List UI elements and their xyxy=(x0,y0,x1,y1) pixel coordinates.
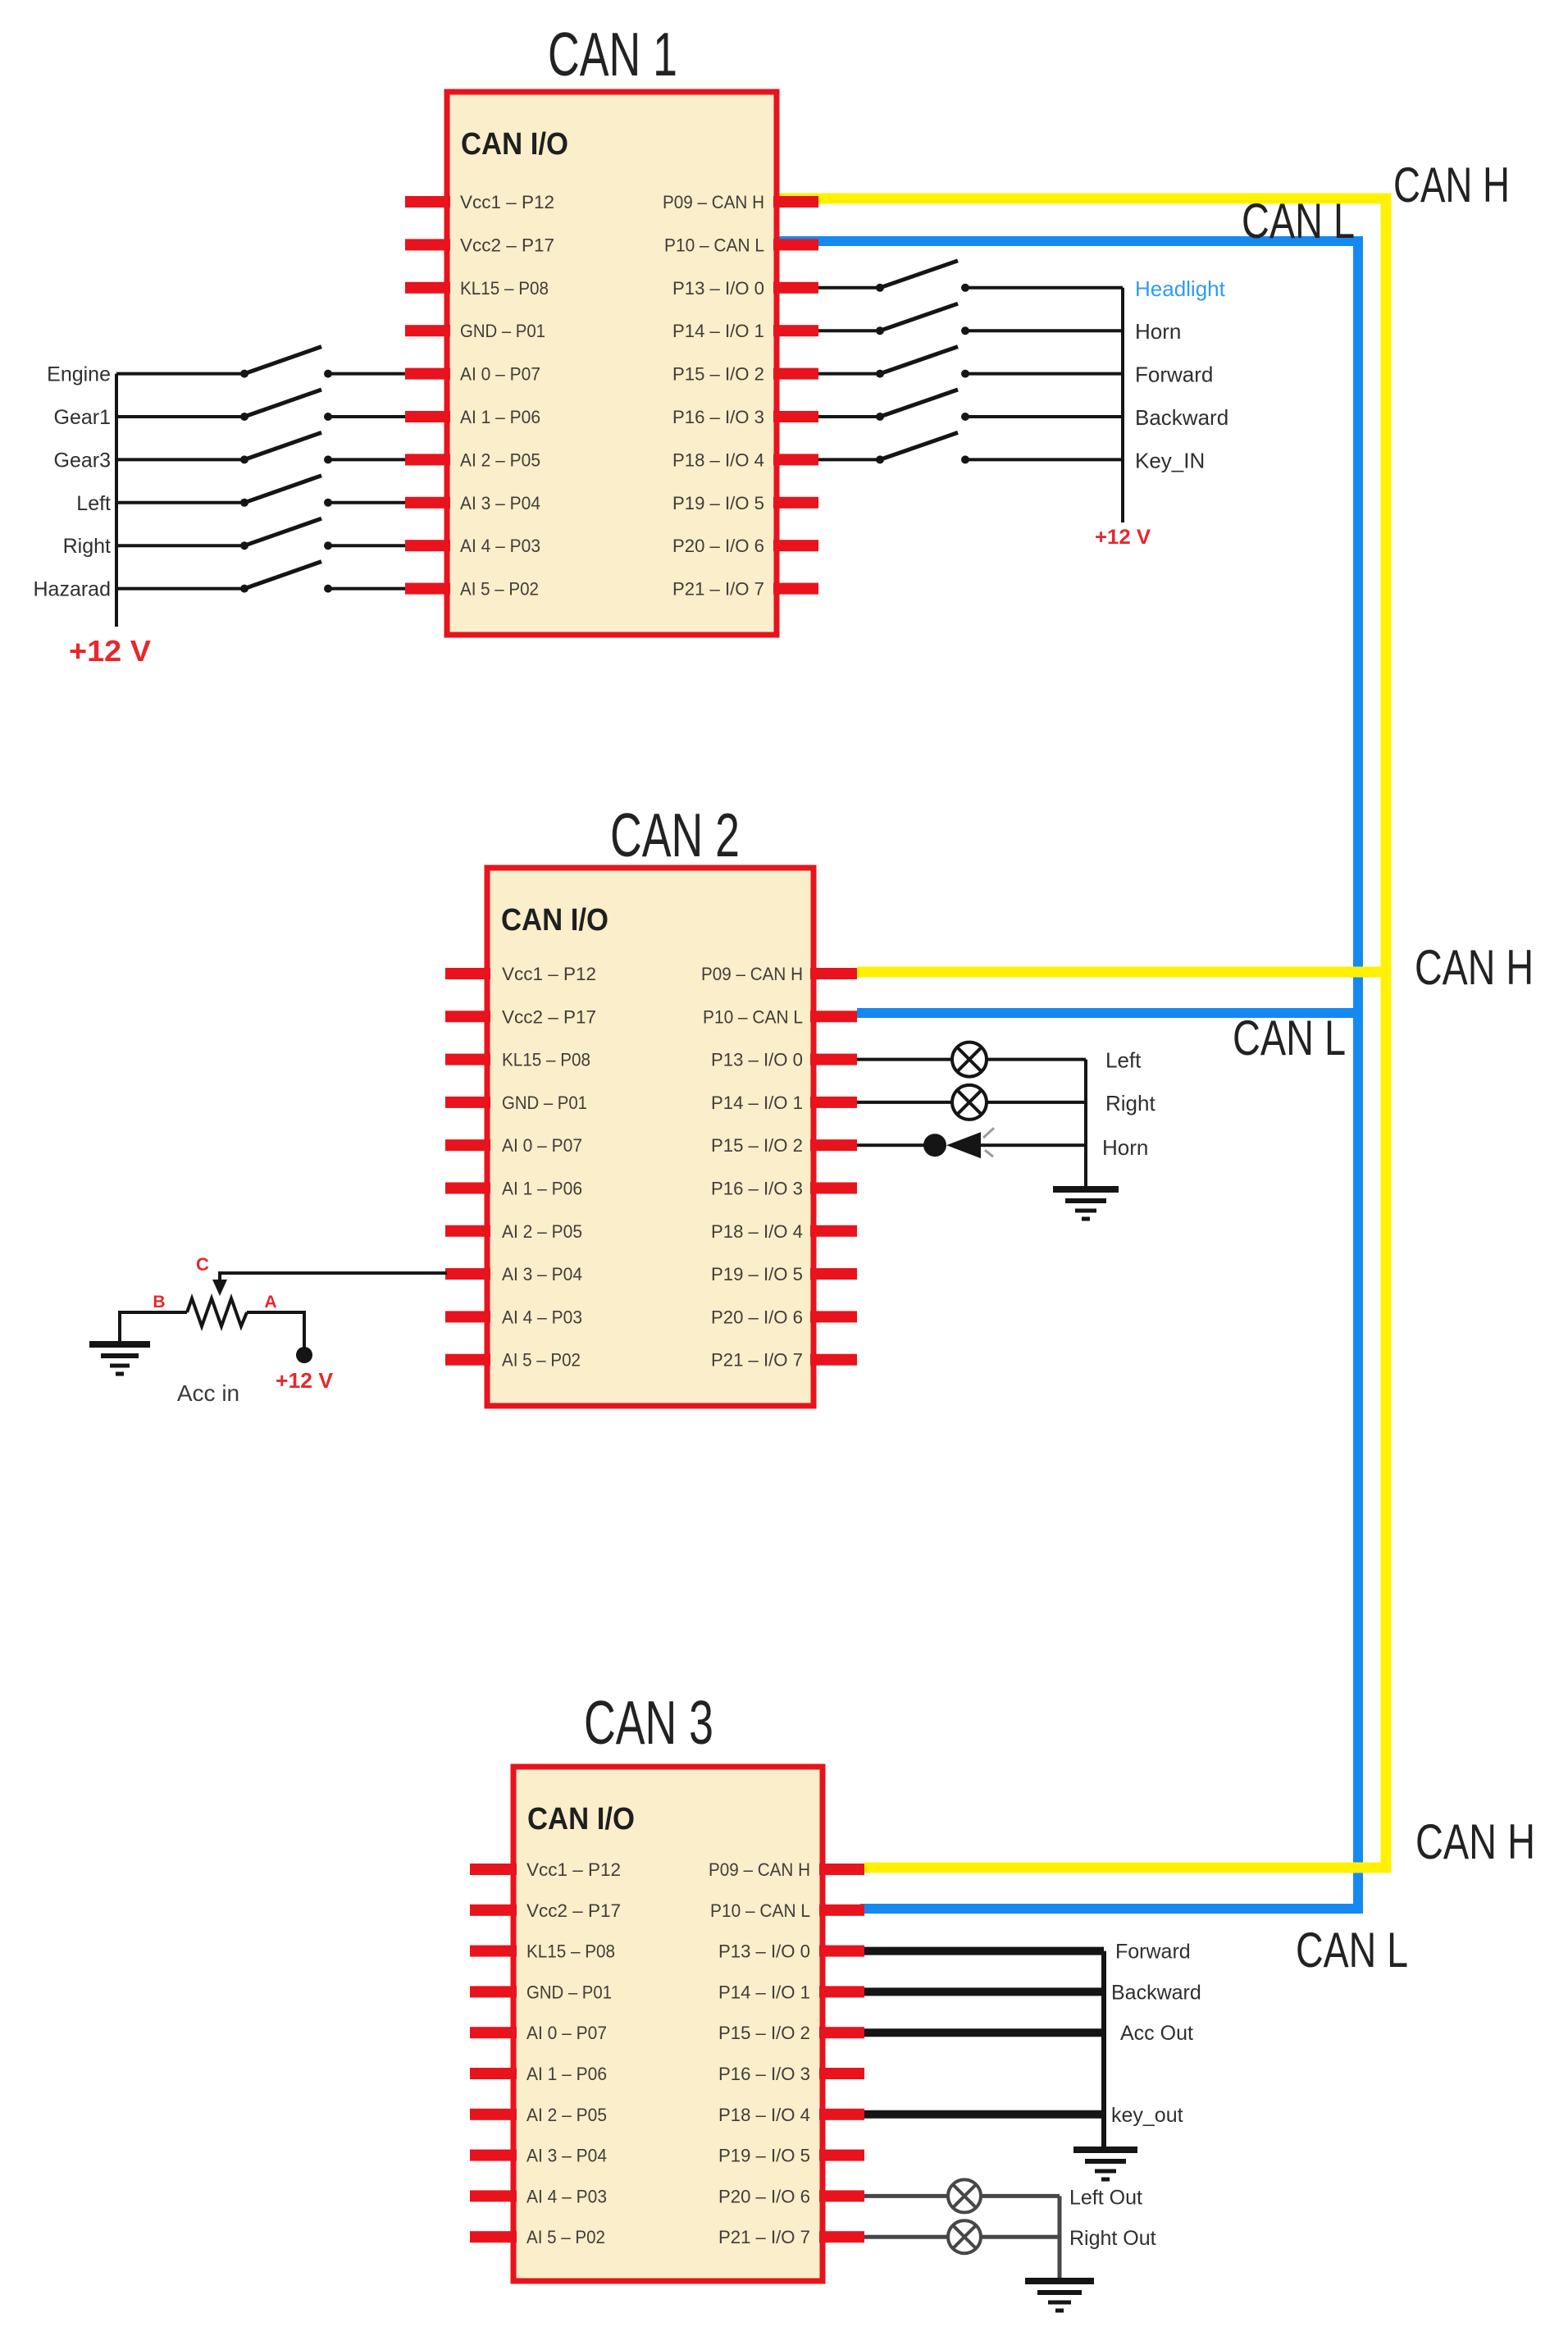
node +12V terminal dot xyxy=(296,1347,312,1363)
svg-text:GND – P01: GND – P01 xyxy=(526,1982,612,2002)
svg-text:AI 0 – P07: AI 0 – P07 xyxy=(526,2023,607,2043)
pin P19 – I/O 5 of CAN 1 (right stub + label) xyxy=(672,493,818,513)
svg-text:Hazarad: Hazarad xyxy=(34,578,112,601)
svg-text:AI 4 – P03: AI 4 – P03 xyxy=(526,2186,607,2206)
pin AI 5 – P02 of CAN 1 (left stub + label) xyxy=(405,579,539,600)
svg-text:Vcc2 – P17: Vcc2 – P17 xyxy=(460,235,554,255)
svg-text:Acc in: Acc in xyxy=(177,1380,239,1406)
svg-text:P13 – I/O 0: P13 – I/O 0 xyxy=(718,1941,810,1962)
svg-text:CAN 2: CAN 2 xyxy=(610,801,740,869)
node +12V rail vertical wire (left of CAN1) xyxy=(115,374,118,627)
pin KL15 – P08 of CAN 3 (left stub + label) xyxy=(470,1941,615,1962)
svg-text:P18 – I/O 4: P18 – I/O 4 xyxy=(711,1221,803,1242)
IC CAN 1 CAN I/O body xyxy=(447,92,777,635)
svg-text:P21 – I/O 7: P21 – I/O 7 xyxy=(718,2227,810,2247)
svg-text:P16 – I/O 3: P16 – I/O 3 xyxy=(718,2064,810,2084)
svg-text:AI 2 – P05: AI 2 – P05 xyxy=(460,449,540,470)
svg-text:P10 – CAN L: P10 – CAN L xyxy=(710,1900,810,1921)
switch "Horn" on I/O 1 of CAN1 xyxy=(818,303,1123,335)
svg-text:Forward: Forward xyxy=(1115,1941,1191,1964)
pin Vcc1 – P12 of CAN 1 (left stub + label) xyxy=(405,192,554,212)
pin P18 – I/O 4 of CAN 3 (right stub + label) xyxy=(718,2105,864,2125)
svg-text:Gear3: Gear3 xyxy=(54,449,111,472)
pin P09 – CAN H of CAN 3 (right stub + label) xyxy=(709,1859,864,1880)
pin AI 1 – P06 of CAN 1 (left stub + label) xyxy=(405,407,540,427)
pin P13 – I/O 0 of CAN 1 (right stub + label) xyxy=(672,278,818,299)
pin AI 2 – P05 of CAN 3 (left stub + label) xyxy=(470,2105,607,2125)
svg-text:AI 1 – P06: AI 1 – P06 xyxy=(460,407,540,427)
pin P10 – CAN L of CAN 3 (right stub + label) xyxy=(710,1900,864,1921)
lamp L1 "Left" on I/O 0 of CAN2 xyxy=(857,1042,1086,1077)
svg-text:CAN I/O: CAN I/O xyxy=(501,903,609,938)
pin AI 1 – P06 of CAN 3 (left stub + label) xyxy=(470,2064,607,2084)
svg-text:Backward: Backward xyxy=(1135,405,1228,430)
pin P20 – I/O 6 of CAN 3 (right stub + label) xyxy=(718,2186,864,2206)
pin Vcc1 – P12 of CAN 3 (left stub + label) xyxy=(470,1859,621,1880)
wire CAN L bus (blue): CAN1 P10 right, down, left into CAN3 P10; branch to CAN2 P10 xyxy=(777,241,1358,1909)
svg-text:KL15 – P08: KL15 – P08 xyxy=(526,1941,615,1962)
svg-text:Horn: Horn xyxy=(1102,1135,1148,1160)
svg-text:AI 3 – P04: AI 3 – P04 xyxy=(526,2146,607,2166)
svg-text:Engine: Engine xyxy=(47,363,111,386)
svg-text:P09 – CAN H: P09 – CAN H xyxy=(663,192,764,212)
pin P16 – I/O 3 of CAN 2 (right stub + label) xyxy=(711,1179,857,1199)
switch "Key_IN" on I/O 4 of CAN1 xyxy=(818,432,1123,463)
horn LS1 on I/O 2 of CAN2 xyxy=(857,1128,1086,1158)
IC CAN 2 CAN I/O body xyxy=(487,868,814,1406)
wire terminal B to ground xyxy=(120,1312,187,1342)
svg-text:Right: Right xyxy=(1105,1091,1155,1115)
svg-text:P18 – I/O 4: P18 – I/O 4 xyxy=(672,449,764,470)
wire lamp common down to ground (CAN3) xyxy=(1058,2196,1062,2279)
svg-text:KL15 – P08: KL15 – P08 xyxy=(460,278,549,299)
lamp L2 "Right" on I/O 1 of CAN2 xyxy=(857,1085,1086,1120)
pin P21 – I/O 7 of CAN 2 (right stub + label) xyxy=(711,1350,857,1371)
switch S1 "Engine" input to AI 0 of CAN1 xyxy=(116,347,405,378)
pin P15 – I/O 2 of CAN 1 (right stub + label) xyxy=(672,364,818,385)
svg-text:Left: Left xyxy=(76,492,111,515)
svg-text:AI 5 – P02: AI 5 – P02 xyxy=(526,2227,605,2247)
pin P18 – I/O 4 of CAN 2 (right stub + label) xyxy=(711,1221,857,1242)
svg-text:P19 – I/O 5: P19 – I/O 5 xyxy=(718,2146,810,2166)
pin P19 – I/O 5 of CAN 2 (right stub + label) xyxy=(711,1264,857,1284)
svg-text:P10 – CAN L: P10 – CAN L xyxy=(703,1006,803,1027)
pin P14 – I/O 1 of CAN 1 (right stub + label) xyxy=(672,321,818,341)
lamp "Left Out" on I/O 6 of CAN3 xyxy=(864,2179,1060,2212)
pin AI 2 – P05 of CAN 2 (left stub + label) xyxy=(445,1221,582,1242)
wire CAN3 outputs common down to ground xyxy=(1101,1951,1106,2147)
ground symbol (CAN2 outputs) xyxy=(1053,1189,1119,1219)
pin P10 – CAN L of CAN 2 (right stub + label) xyxy=(703,1006,857,1027)
svg-text:P21 – I/O 7: P21 – I/O 7 xyxy=(711,1350,803,1371)
pin Vcc2 – P17 of CAN 3 (left stub + label) xyxy=(470,1900,621,1921)
svg-text:AI 4 – P03: AI 4 – P03 xyxy=(460,536,540,556)
svg-text:AI 3 – P04: AI 3 – P04 xyxy=(502,1264,582,1284)
svg-text:CAN L: CAN L xyxy=(1296,1923,1408,1978)
switch S5 "Right" input to AI 4 of CAN1 xyxy=(116,518,405,550)
pin P14 – I/O 1 of CAN 2 (right stub + label) xyxy=(711,1093,857,1113)
pin P09 – CAN H of CAN 1 (right stub + label) xyxy=(663,192,818,212)
svg-text:B: B xyxy=(153,1293,165,1312)
pin P13 – I/O 0 of CAN 2 (right stub + label) xyxy=(711,1050,857,1070)
pin P10 – CAN L of CAN 1 (right stub + label) xyxy=(664,235,818,255)
pin AI 4 – P03 of CAN 3 (left stub + label) xyxy=(470,2186,607,2206)
pin P15 – I/O 2 of CAN 3 (right stub + label) xyxy=(718,2023,864,2043)
switch S4 "Left" input to AI 3 of CAN1 xyxy=(116,476,405,507)
svg-text:CAN H: CAN H xyxy=(1393,157,1510,212)
pin P09 – CAN H of CAN 2 (right stub + label) xyxy=(701,964,857,984)
svg-text:P19 – I/O 5: P19 – I/O 5 xyxy=(672,493,764,513)
switch S6 "Hazarad" input to AI 5 of CAN1 xyxy=(116,562,405,593)
svg-text:P13 – I/O 0: P13 – I/O 0 xyxy=(672,278,764,299)
svg-text:GND – P01: GND – P01 xyxy=(502,1093,587,1113)
svg-text:key_out: key_out xyxy=(1111,2104,1183,2127)
svg-text:AI 1 – P06: AI 1 – P06 xyxy=(502,1179,582,1199)
svg-text:Forward: Forward xyxy=(1135,363,1213,387)
pin P20 – I/O 6 of CAN 1 (right stub + label) xyxy=(672,536,818,556)
pin P13 – I/O 0 of CAN 3 (right stub + label) xyxy=(718,1941,864,1962)
pin P16 – I/O 3 of CAN 3 (right stub + label) xyxy=(718,2064,864,2084)
IC CAN 3 CAN I/O body xyxy=(513,1767,823,2281)
svg-text:P14 – I/O 1: P14 – I/O 1 xyxy=(672,321,764,341)
svg-text:Left: Left xyxy=(1105,1048,1142,1073)
svg-text:KL15 – P08: KL15 – P08 xyxy=(502,1050,590,1070)
pin AI 3 – P04 of CAN 3 (left stub + label) xyxy=(470,2146,607,2166)
svg-text:P15 – I/O 2: P15 – I/O 2 xyxy=(718,2023,810,2043)
svg-text:CAN 1: CAN 1 xyxy=(548,20,677,89)
switch "Backward" on I/O 3 of CAN1 xyxy=(818,390,1123,421)
svg-text:P14 – I/O 1: P14 – I/O 1 xyxy=(718,1982,810,2002)
svg-text:Vcc2 – P17: Vcc2 – P17 xyxy=(526,1900,621,1921)
svg-text:AI 3 – P04: AI 3 – P04 xyxy=(460,493,540,513)
switch "Forward" on I/O 2 of CAN1 xyxy=(818,347,1123,378)
svg-text:Vcc2 – P17: Vcc2 – P17 xyxy=(502,1006,596,1027)
svg-text:P20 – I/O 6: P20 – I/O 6 xyxy=(672,536,764,556)
pin AI 0 – P07 of CAN 2 (left stub + label) xyxy=(445,1135,582,1156)
wire Acc Out output from I/O 2 of CAN3 xyxy=(864,2028,1104,2037)
svg-text:AI 0 – P07: AI 0 – P07 xyxy=(460,364,540,385)
svg-text:AI 1 – P06: AI 1 – P06 xyxy=(526,2064,607,2084)
svg-text:Backward: Backward xyxy=(1111,1981,1201,2004)
pin Vcc1 – P12 of CAN 2 (left stub + label) xyxy=(445,964,596,984)
svg-text:P14 – I/O 1: P14 – I/O 1 xyxy=(711,1093,803,1113)
svg-text:Right: Right xyxy=(63,535,111,558)
ground symbol (potentiometer) xyxy=(89,1344,150,1374)
svg-text:Horn: Horn xyxy=(1135,319,1181,344)
pin GND – P01 of CAN 2 (left stub + label) xyxy=(445,1093,587,1113)
svg-text:AI 5 – P02: AI 5 – P02 xyxy=(502,1350,581,1371)
pin P15 – I/O 2 of CAN 2 (right stub + label) xyxy=(711,1135,857,1156)
svg-text:P21 – I/O 7: P21 – I/O 7 xyxy=(672,579,764,600)
pin P21 – I/O 7 of CAN 1 (right stub + label) xyxy=(672,579,818,600)
ground symbol (CAN3 outputs) xyxy=(1073,2150,1137,2179)
svg-text:AI 5 – P02: AI 5 – P02 xyxy=(460,579,539,600)
switch S3 "Gear3" input to AI 2 of CAN1 xyxy=(116,432,405,463)
lamp "Right Out" on I/O 7 of CAN3 xyxy=(864,2220,1060,2253)
pin AI 3 – P04 of CAN 1 (left stub + label) xyxy=(405,493,540,513)
svg-text:P18 – I/O 4: P18 – I/O 4 xyxy=(718,2105,810,2125)
pin AI 4 – P03 of CAN 2 (left stub + label) xyxy=(445,1307,582,1327)
svg-text:CAN L: CAN L xyxy=(1233,1011,1346,1065)
switch "Headlight" on I/O 0 of CAN1 xyxy=(818,261,1123,292)
svg-text:Gear1: Gear1 xyxy=(54,406,111,429)
pin KL15 – P08 of CAN 2 (left stub + label) xyxy=(445,1050,590,1070)
pin Vcc2 – P17 of CAN 1 (left stub + label) xyxy=(405,235,554,255)
pin AI 1 – P06 of CAN 2 (left stub + label) xyxy=(445,1179,582,1199)
svg-text:P19 – I/O 5: P19 – I/O 5 xyxy=(711,1264,803,1284)
pin Vcc2 – P17 of CAN 2 (left stub + label) xyxy=(445,1006,596,1027)
svg-text:CAN L: CAN L xyxy=(1242,194,1355,249)
wire lamp/horn common down to ground (CAN2) xyxy=(1084,1060,1087,1187)
svg-text:CAN 3: CAN 3 xyxy=(584,1688,713,1757)
svg-text:P15 – I/O 2: P15 – I/O 2 xyxy=(672,364,764,385)
svg-text:AI 2 – P05: AI 2 – P05 xyxy=(526,2105,607,2125)
svg-text:A: A xyxy=(264,1293,276,1312)
svg-text:Acc Out: Acc Out xyxy=(1120,2022,1193,2045)
svg-text:P20 – I/O 6: P20 – I/O 6 xyxy=(711,1307,803,1327)
pin GND – P01 of CAN 3 (left stub + label) xyxy=(470,1982,612,2002)
svg-text:P09 – CAN H: P09 – CAN H xyxy=(709,1859,810,1880)
ground symbol (CAN3 lamps) xyxy=(1025,2281,1094,2311)
svg-text:+12 V: +12 V xyxy=(69,634,151,668)
svg-text:C: C xyxy=(196,1254,209,1275)
svg-text:P16 – I/O 3: P16 – I/O 3 xyxy=(711,1179,803,1199)
node +12V rail vertical wire (right of CAN1) xyxy=(1121,288,1124,522)
svg-text:P16 – I/O 3: P16 – I/O 3 xyxy=(672,407,764,427)
switch S2 "Gear1" input to AI 1 of CAN1 xyxy=(116,390,405,421)
svg-text:AI 4 – P03: AI 4 – P03 xyxy=(502,1307,582,1327)
svg-text:GND – P01: GND – P01 xyxy=(460,321,545,341)
svg-text:CAN H: CAN H xyxy=(1415,1814,1535,1869)
pin P20 – I/O 6 of CAN 2 (right stub + label) xyxy=(711,1307,857,1327)
pin P19 – I/O 5 of CAN 3 (right stub + label) xyxy=(718,2146,864,2166)
svg-text:P15 – I/O 2: P15 – I/O 2 xyxy=(711,1135,803,1156)
pin AI 5 – P02 of CAN 2 (left stub + label) xyxy=(445,1350,581,1371)
svg-text:CAN I/O: CAN I/O xyxy=(527,1802,635,1836)
pin GND – P01 of CAN 1 (left stub + label) xyxy=(405,321,545,341)
svg-text:CAN H: CAN H xyxy=(1415,940,1534,995)
pin P14 – I/O 1 of CAN 3 (right stub + label) xyxy=(718,1982,864,2002)
svg-text:CAN I/O: CAN I/O xyxy=(461,127,568,162)
potentiometer RV1 wiper arrow xyxy=(212,1280,227,1296)
wire terminal A to +12V node xyxy=(247,1312,304,1348)
pin AI 5 – P02 of CAN 3 (left stub + label) xyxy=(470,2227,605,2247)
svg-text:P20 – I/O 6: P20 – I/O 6 xyxy=(718,2186,810,2206)
pin AI 2 – P05 of CAN 1 (left stub + label) xyxy=(405,449,540,470)
wire key_out output from I/O 4 of CAN3 xyxy=(864,2110,1104,2119)
svg-text:Vcc1 – P12: Vcc1 – P12 xyxy=(460,192,554,212)
pin P21 – I/O 7 of CAN 3 (right stub + label) xyxy=(718,2227,864,2247)
svg-text:+12 V: +12 V xyxy=(1095,526,1151,549)
pin AI 3 – P04 of CAN 2 (left stub + label) xyxy=(445,1264,582,1284)
svg-text:Key_IN: Key_IN xyxy=(1135,448,1205,472)
svg-text:P09 – CAN H: P09 – CAN H xyxy=(701,964,803,984)
pin AI 0 – P07 of CAN 1 (left stub + label) xyxy=(405,364,540,385)
svg-text:P13 – I/O 0: P13 – I/O 0 xyxy=(711,1050,803,1070)
pin AI 0 – P07 of CAN 3 (left stub + label) xyxy=(470,2023,607,2043)
pin P16 – I/O 3 of CAN 1 (right stub + label) xyxy=(672,407,818,427)
svg-text:Vcc1 – P12: Vcc1 – P12 xyxy=(502,964,596,984)
wire CAN2 AI3 to potentiometer wiper xyxy=(220,1273,447,1280)
resistor RV1 body (zigzag) xyxy=(187,1298,247,1326)
pin KL15 – P08 of CAN 1 (left stub + label) xyxy=(405,278,549,299)
svg-text:P10 – CAN L: P10 – CAN L xyxy=(664,235,764,255)
svg-text:Left Out: Left Out xyxy=(1069,2186,1142,2209)
wire CAN H bus (yellow): CAN1 P09 right, down, left into CAN3 P09; branch to CAN2 P09 xyxy=(777,198,1386,1868)
pin P18 – I/O 4 of CAN 1 (right stub + label) xyxy=(672,449,818,470)
wire Forward output from I/O 0 of CAN3 xyxy=(864,1947,1104,1955)
svg-text:AI 0 – P07: AI 0 – P07 xyxy=(502,1135,582,1156)
svg-text:AI 2 – P05: AI 2 – P05 xyxy=(502,1221,582,1242)
wire Backward output from I/O 1 of CAN3 xyxy=(864,1987,1104,1996)
svg-text:Headlight: Headlight xyxy=(1135,276,1226,301)
svg-text:+12 V: +12 V xyxy=(276,1368,334,1393)
svg-text:Right Out: Right Out xyxy=(1069,2227,1156,2250)
svg-text:Vcc1 – P12: Vcc1 – P12 xyxy=(526,1859,621,1880)
pin AI 4 – P03 of CAN 1 (left stub + label) xyxy=(405,536,540,556)
